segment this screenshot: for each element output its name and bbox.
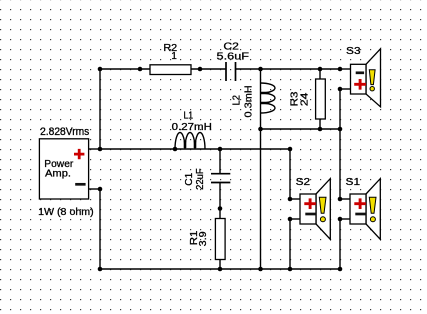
inductor L2 (231, 69, 275, 129)
wire (89, 188, 100, 190)
node junction (318, 67, 323, 72)
wire (340, 88, 351, 90)
wire (220, 148, 290, 150)
node junction (258, 67, 263, 72)
resistor R1 (189, 209, 225, 270)
node junction (218, 147, 223, 152)
svg-text:Amp.: Amp. (45, 169, 71, 180)
wire (340, 218, 350, 220)
node junction (338, 87, 343, 92)
wire (99, 69, 101, 149)
svg-text:L2: L2 (231, 95, 242, 106)
capacitor C2 (217, 42, 250, 81)
svg-text:2.828Vrms: 2.828Vrms (40, 126, 90, 138)
svg-text:C1: C1 (184, 172, 195, 185)
wire (100, 68, 140, 70)
svg-text:24: 24 (300, 92, 311, 106)
node junction (338, 197, 343, 202)
capacitor C1 (184, 149, 230, 209)
wire (290, 218, 300, 220)
svg-text:1: 1 (171, 51, 177, 62)
wire (100, 148, 220, 150)
node junction (288, 147, 293, 152)
node junction (338, 127, 343, 132)
svg-text:0.3mH: 0.3mH (244, 85, 255, 117)
wire (200, 68, 226, 70)
wire (89, 148, 100, 150)
wire (320, 68, 340, 70)
svg-text:S3: S3 (346, 46, 361, 57)
node junction (98, 267, 103, 272)
svg-text:3.9: 3.9 (198, 231, 209, 246)
svg-text:5.6uF: 5.6uF (217, 52, 250, 63)
node junction (258, 127, 263, 132)
node junction (338, 267, 343, 272)
svg-text:1W (8 ohm): 1W (8 ohm) (38, 207, 94, 218)
wire (339, 89, 341, 129)
node junction (288, 267, 293, 272)
svg-text:22uF: 22uF (195, 168, 206, 190)
node junction (138, 67, 143, 72)
wire (289, 219, 291, 269)
resistor R2 (140, 43, 200, 74)
svg-text:S2: S2 (296, 177, 311, 188)
speaker S2 (296, 177, 331, 240)
wire (290, 198, 300, 200)
speaker S3 (346, 46, 380, 107)
node junction (288, 197, 293, 202)
svg-text:0.27mH: 0.27mH (172, 122, 212, 133)
resistor R3 (290, 69, 326, 129)
node junction (98, 187, 103, 192)
node junction (98, 67, 103, 72)
wire (339, 219, 341, 269)
wire (100, 268, 340, 270)
wire (289, 149, 291, 199)
svg-text:S1: S1 (346, 177, 361, 188)
wire (236, 68, 320, 70)
node junction (338, 67, 343, 72)
node junction (258, 267, 263, 272)
node junction (338, 217, 343, 222)
wire (99, 189, 101, 269)
node junction (98, 147, 103, 152)
node junction (218, 206, 223, 211)
node junction (288, 217, 293, 222)
wire (339, 129, 341, 199)
node junction (318, 127, 323, 132)
speaker S1 (346, 177, 381, 240)
node junction (173, 147, 178, 152)
inductor L1 (172, 111, 212, 149)
node junction (218, 267, 223, 272)
wire (260, 129, 262, 269)
wire (340, 68, 351, 70)
wire (261, 128, 341, 130)
voltage source V1 Power Amp (38, 126, 94, 218)
wire (340, 198, 350, 200)
node junction (198, 67, 203, 72)
svg-text:L1: L1 (183, 111, 193, 122)
